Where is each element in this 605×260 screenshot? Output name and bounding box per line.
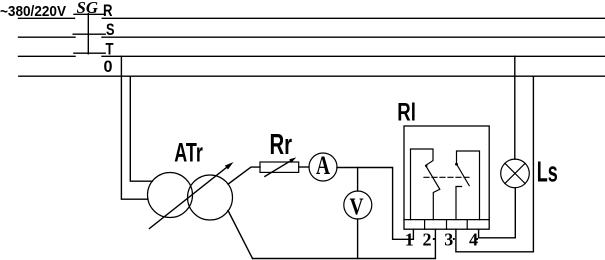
- resistor Rr: [260, 162, 299, 172]
- wire line 0: [19, 75, 605, 77]
- switch SG link bar: [87, 14, 89, 54]
- relay contact right (pins 3-4): [457, 151, 480, 220]
- switch SG blade pole T: [74, 52, 105, 54]
- wire voltmeter to bottom rail: [357, 219, 359, 259]
- svg-text:R: R: [103, 1, 113, 20]
- svg-text:2: 2: [423, 229, 432, 249]
- relay contact left (pins 1-2): [411, 149, 440, 220]
- wire T to ATr: [121, 56, 148, 199]
- pin 3 label period: [453, 238, 455, 240]
- svg-text:Ls: Ls: [537, 156, 558, 188]
- autotransformer ATr primary winding: [148, 173, 193, 218]
- relay Rl enclosure: [404, 126, 489, 229]
- switch SG blade pole S: [73, 33, 105, 35]
- svg-text:Rl: Rl: [397, 99, 416, 127]
- wire bottom rail to pin 2: [253, 229, 436, 258]
- svg-text:1: 1: [405, 229, 414, 249]
- lamp Ls body: [501, 159, 530, 188]
- wire pin 4 to lamp: [479, 188, 516, 238]
- wire line T to lamp: [514, 56, 516, 159]
- wire R supply stub: [19, 17, 75, 19]
- relay contact pivot dot: [455, 163, 458, 166]
- wire ammeter to pin 1 of Rl: [337, 168, 413, 240]
- autotransformer ATr secondary winding: [188, 175, 233, 220]
- svg-text:3: 3: [444, 229, 453, 249]
- lamp Ls cross: [505, 163, 525, 183]
- wire ammeter node to voltmeter: [357, 168, 359, 192]
- wire ATr to Rr: [228, 167, 260, 184]
- wire S supply stub: [19, 36, 76, 38]
- pin 2 label period: [433, 238, 435, 240]
- wire 0 to ATr: [130, 76, 152, 181]
- voltmeter V1 body: [344, 191, 372, 219]
- svg-text:Rr: Rr: [270, 129, 293, 161]
- wire ATr tap to bottom rail: [228, 211, 253, 259]
- svg-text:S: S: [106, 20, 115, 39]
- svg-text:0: 0: [104, 57, 113, 76]
- svg-text:A: A: [316, 151, 330, 180]
- pin 4 label period: [476, 238, 478, 240]
- switch SG blade pole R: [74, 13, 105, 15]
- autotransformer ATr adjustment arrow: [149, 166, 229, 229]
- wire pin 3 to line 0: [456, 76, 534, 252]
- wire line R: [102, 17, 605, 19]
- wire Rr to ammeter: [299, 166, 309, 168]
- svg-text:V: V: [350, 195, 365, 221]
- ammeter A1 body: [309, 153, 337, 181]
- relay left contact pivot dot: [425, 165, 427, 167]
- resistor Rr adjustment arrow: [265, 160, 292, 176]
- relay linkage dashed: [424, 176, 470, 178]
- wire T supply stub: [19, 55, 76, 57]
- wire line T: [102, 55, 605, 57]
- svg-text:ATr: ATr: [174, 138, 203, 168]
- relay Rl terminal strip: [404, 219, 489, 221]
- wire line S: [102, 36, 605, 38]
